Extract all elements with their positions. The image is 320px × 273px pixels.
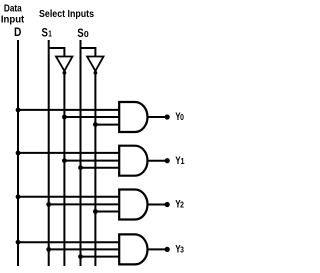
junction on S1 at G3 middle input (46, 202, 51, 207)
svg-text:S: S (77, 27, 83, 40)
output node dot Y1 (165, 158, 170, 163)
wire: G2 output to node Y1 (148, 160, 166, 162)
output node dot Y2 (165, 202, 170, 207)
svg-text:1: 1 (48, 29, 52, 39)
wire: G1 bottom input from S0-bar (95, 124, 119, 126)
junction on D at G4 top input (16, 240, 21, 245)
AND gate G2 (output Y1) (119, 146, 147, 176)
junction on S1-bar at G1 middle input (62, 115, 67, 120)
wire: G1 output to node Y0 (148, 116, 166, 118)
junction on D at G1 top input (16, 108, 21, 113)
junction on D at G3 top input (16, 194, 21, 199)
wire: data rail D (17, 40, 19, 266)
svg-text:D: D (14, 27, 21, 40)
AND gate G3 (output Y2) (119, 190, 147, 220)
junction on S1 at G4 middle input (46, 247, 51, 252)
junction on S0 at G2 bottom input (78, 165, 83, 170)
svg-text:0: 0 (180, 113, 184, 123)
svg-text:3: 3 (180, 245, 184, 255)
svg-text:2: 2 (180, 200, 184, 210)
svg-text:Input: Input (1, 14, 25, 25)
wire: G4 bottom input from S0 (81, 256, 120, 258)
wire: branch S0 to inverter U2 input (81, 48, 96, 57)
wire: select rail S0 (80, 40, 82, 266)
junction on S1-bar at G2 middle input (62, 158, 67, 163)
wire: G4 top input from D (18, 241, 119, 243)
svg-text:Data: Data (4, 3, 23, 14)
svg-text:Select Inputs: Select Inputs (39, 9, 94, 21)
inverter U1 (NOT gate on S1) (56, 57, 72, 75)
svg-text:S: S (42, 26, 48, 39)
wire: G4 output to node Y3 (148, 248, 166, 250)
junction on D at G2 top input (16, 151, 21, 156)
output node dot Y3 (165, 247, 170, 252)
output node dot Y0 (165, 114, 170, 119)
svg-text:0: 0 (84, 29, 89, 39)
junction on S0 at G4 bottom input (78, 254, 83, 259)
junction on S0-bar at G1 bottom input (93, 122, 98, 127)
wire: G2 bottom input from S0 (81, 167, 120, 169)
wire: G4 middle input from S1 (49, 248, 120, 250)
wire: G1 middle input from S1-bar (64, 116, 119, 118)
AND gate G4 (output Y3) (119, 234, 147, 264)
wire: G1 top input from D (18, 109, 119, 111)
wire: select rail S1 (48, 40, 50, 266)
svg-text:1: 1 (181, 157, 186, 166)
inverter U2 (NOT gate on S0) (87, 57, 103, 75)
junction on S0-bar at G3 bottom input (93, 209, 98, 214)
wire: G2 top input from D (18, 152, 119, 154)
wire: G3 output to node Y2 (148, 204, 166, 206)
wire: inverted rail S1-bar (63, 73, 65, 266)
wire: G3 top input from D (18, 196, 119, 198)
AND gate G1 (output Y0) (119, 102, 147, 132)
wire: G3 bottom input from S0-bar (95, 211, 119, 213)
wire: G3 middle input from S1 (49, 203, 120, 205)
wire: branch S1 to inverter U1 input (49, 48, 65, 57)
wire: G2 middle input from S1-bar (64, 160, 119, 162)
wire: inverted rail S0-bar (94, 73, 96, 266)
